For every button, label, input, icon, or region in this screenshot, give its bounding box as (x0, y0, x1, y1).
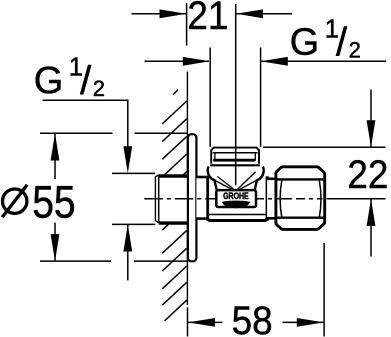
leader and dimension arrows for left port thread G 1/2 (43, 100, 128, 153)
dimension line 21 (wall to top port axis) (132, 13, 293, 15)
fan lines (215, 180, 232, 189)
svg-text:G: G (290, 22, 320, 64)
svg-text:2: 2 (93, 76, 105, 101)
svg-text:GROHE: GROHE (223, 191, 249, 201)
top port collar G1/2 (210, 147, 260, 167)
svg-text:/: / (336, 21, 348, 65)
svg-text:/: / (80, 59, 92, 103)
svg-text:21: 21 (187, 0, 228, 38)
compression nut (276, 167, 325, 230)
svg-text:G: G (34, 60, 64, 102)
dimension &#216;55 (flange diameter) (40, 132, 188, 134)
svg-text:2: 2 (349, 38, 361, 63)
svg-text:58: 58 (232, 299, 273, 337)
wall hatching (162, 90, 187, 321)
centerline: outlet axis (dashed) (144, 198, 217, 200)
diameter symbol of dimension &#216;55 (2, 185, 27, 218)
GROHE label plate (216, 190, 256, 208)
dimension 58 (wall to nut end) (188, 321, 324, 323)
left neck (196, 177, 208, 219)
funnel / transition cone (208, 167, 264, 190)
svg-text:22: 22 (347, 153, 388, 197)
centerline: top port axis / right extension of dim 21 (235, 4, 237, 185)
flange (escutcheon) (188, 134, 197, 261)
wall face line (186, 72, 188, 306)
extension line: wall face (left end of dim 21) (186, 3, 188, 46)
svg-text:55: 55 (32, 176, 75, 227)
body (207, 176, 268, 220)
extension lines: top port thread edges (209, 48, 211, 147)
valve left port stub G1/2 (155, 175, 187, 223)
dimension 22 (top port face to outlet axis) (263, 146, 386, 148)
dimension line for top port thread G 1/2 (145, 60, 387, 62)
right neck (267, 178, 277, 218)
